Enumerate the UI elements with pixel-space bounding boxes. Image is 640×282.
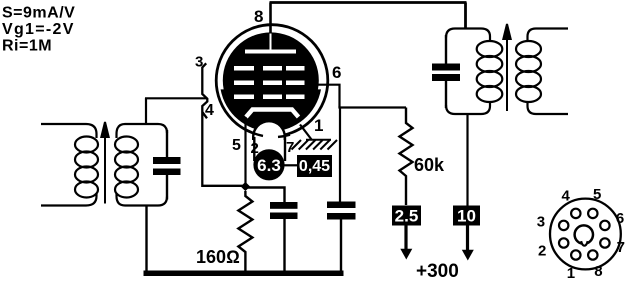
transformer T2 primary winding [446,29,502,115]
socket key spigot [575,225,593,243]
capacitor C4 (tank across T2 primary) [432,35,460,108]
capacitor C1 (tank across T1 secondary) [153,130,181,200]
wire cathode pin5 down to junction [244,117,246,187]
wire grid input stub up [145,98,147,124]
tube V1 anode plate bar [245,50,296,54]
svg-text:4: 4 [205,102,214,119]
wire grid input horizontal [145,97,208,99]
ground rail [144,271,344,277]
resistor R1 160ohm [238,191,252,272]
svg-text:6.3: 6.3 [257,156,281,175]
wire T2 primary down to anode current arrow [466,114,468,206]
wire pin6 node down to C3 [339,108,341,203]
capacitor C2 (cathode bypass) [270,202,298,272]
heater voltage disc 6.3 [253,149,284,180]
wire 6.3 to 0.45 [284,164,298,166]
anode current box 10 [453,206,480,226]
svg-text:3: 3 [195,54,203,71]
socket pin holes [559,209,610,260]
transformer T1 secondary winding [115,124,167,206]
svg-text:0,45: 0,45 [299,158,330,175]
svg-text:5: 5 [232,137,241,154]
svg-text:4: 4 [562,188,571,205]
tube V1 cathode [246,110,299,118]
svg-text:60k: 60k [414,155,445,175]
wire junction to C2 [245,188,284,203]
svg-text:8: 8 [254,7,263,26]
resistor R2 60k [400,108,413,206]
tube V1 heater dome [253,121,285,152]
tube V1 envelope [216,25,328,137]
svg-text:+300: +300 [416,261,459,282]
screen current arrow [404,226,407,251]
tube V1 anode lead (white inside disc) [270,33,272,51]
transformer T1 core arrow [101,122,108,204]
svg-text:10: 10 [457,207,476,226]
wire pin1 to shield hatch [300,125,312,140]
socket outline [550,199,621,270]
svg-text:Vg1=-2V: Vg1=-2V [2,21,75,38]
envelope arc over heater [252,133,263,136]
shield hatch (chassis) [292,140,338,150]
wire pin6 node to 60k [338,106,406,108]
tube V1 electrode disc lower bulk [221,89,321,131]
svg-text:2: 2 [538,243,546,260]
svg-text:160Ω: 160Ω [196,247,240,267]
svg-text:6: 6 [616,210,624,227]
svg-text:2.5: 2.5 [395,207,419,226]
svg-text:3: 3 [537,213,545,230]
wire screen grid to pin 6 [317,85,340,108]
svg-text:S=9mA/V: S=9mA/V [2,5,75,22]
transformer T1 primary winding [41,124,98,206]
capacitor C3 (screen bypass) [327,202,356,273]
svg-text:1: 1 [567,265,575,282]
svg-text:7: 7 [617,239,625,256]
grid shield bracket pins 3,4 [202,63,244,186]
svg-text:5: 5 [593,186,601,203]
wire anode to HT rail [269,3,272,34]
heater current box 0.45 [297,155,332,177]
transformer T2 secondary winding [516,29,568,115]
svg-text:8: 8 [594,263,602,280]
transformer T2 core arrow [503,24,510,111]
tube V1 heater legs [253,137,255,161]
tube V1 grid g2 dashes [234,81,305,86]
HT top rail [270,1,467,4]
wire T1 bottom stub to ground rail [145,206,147,273]
screen current box 2.5 [392,206,421,226]
junction node (cathode) [241,182,250,191]
svg-text:1: 1 [314,116,323,135]
tube V1 grid g3 dashes [234,66,305,71]
tube V1 electrode disc [223,32,319,128]
wire HT rail down to T2 [464,3,467,30]
svg-text:Ri=1M: Ri=1M [2,38,52,55]
tube V1 grid g1 dashes [234,95,305,100]
svg-text:6: 6 [332,63,341,82]
anode current arrow [466,226,469,252]
